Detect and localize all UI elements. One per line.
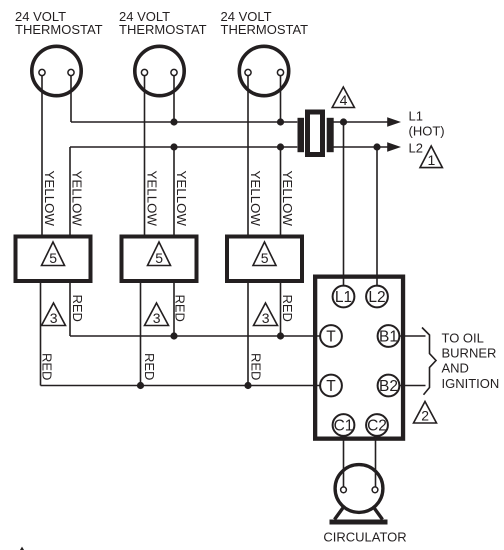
svg-text:3: 3	[153, 310, 161, 326]
triangle note 1	[420, 146, 442, 168]
svg-text:5: 5	[261, 250, 269, 266]
triangle note 3 below box 1	[42, 303, 66, 326]
arrow L1	[387, 117, 401, 127]
svg-text:RED: RED	[142, 353, 157, 380]
svg-text:1: 1	[428, 152, 436, 168]
svg-text:B1: B1	[379, 329, 398, 346]
svg-text:BURNER: BURNER	[442, 346, 497, 361]
svg-text:IGNITION: IGNITION	[442, 376, 500, 391]
terminal L1	[333, 286, 355, 308]
thermostat 2 terminals	[141, 69, 147, 75]
svg-text:L1: L1	[335, 289, 352, 306]
terminal C1	[333, 414, 355, 436]
junction dot line1 / L1 drop	[340, 118, 347, 125]
svg-text:THERMOSTAT: THERMOSTAT	[221, 22, 309, 37]
protectorelay box	[315, 277, 403, 439]
wire box1 bottom-left to line 4	[40, 283, 42, 386]
junction dot line4 / box3	[244, 382, 251, 389]
wire T2 right terminal down to line 1	[173, 73, 175, 123]
terminal C2	[366, 414, 388, 436]
terminal T upper	[320, 325, 342, 347]
triangle note 5 in box 2	[148, 242, 171, 266]
wire C2 to circulator	[375, 437, 377, 487]
svg-text:(HOT): (HOT)	[409, 124, 445, 139]
relay box 1	[16, 237, 91, 282]
wire box2 bottom-left to line 4	[140, 283, 142, 386]
arrow L2	[387, 142, 401, 152]
svg-text:TO OIL: TO OIL	[442, 331, 484, 346]
label L1 (HOT)	[409, 109, 445, 139]
wire T3 right terminal down to line 1	[280, 73, 282, 123]
svg-text:5: 5	[155, 250, 163, 266]
svg-text:2: 2	[421, 408, 429, 424]
svg-text:C1: C1	[334, 418, 354, 435]
svg-text:3: 3	[262, 310, 270, 326]
svg-text:T: T	[326, 329, 336, 346]
terminal T lower	[320, 375, 342, 397]
brace to oil burner	[422, 328, 436, 395]
wire T3 left terminal to relay box 3	[247, 73, 249, 235]
circulator terminal left	[341, 487, 347, 493]
triangle note 3 below box 2	[145, 303, 169, 326]
svg-text:THERMOSTAT: THERMOSTAT	[119, 22, 207, 37]
triangle note 3 below box 3	[254, 303, 278, 326]
svg-text:YELLOW: YELLOW	[280, 171, 295, 227]
junction dot line3 / box2	[170, 332, 177, 339]
wire line2 drop to box 3	[280, 147, 282, 235]
svg-text:THERMOSTAT: THERMOSTAT	[15, 22, 103, 37]
svg-text:AND: AND	[442, 361, 469, 376]
circulator terminal right	[372, 487, 378, 493]
svg-text:YELLOW: YELLOW	[248, 171, 263, 227]
junction dot line3 / box3	[277, 332, 284, 339]
svg-text:RED: RED	[70, 295, 85, 322]
wire T2 left terminal to relay box 2	[144, 73, 146, 235]
connector plug right bar	[327, 118, 334, 152]
svg-text:4: 4	[340, 92, 348, 108]
junction dot line1 / T2	[170, 118, 177, 125]
wire T1 left terminal to relay box 1	[41, 73, 43, 235]
svg-text:L1: L1	[409, 109, 423, 124]
wire box3 bottom-right to line 3	[280, 283, 282, 336]
wire stub B1	[400, 335, 426, 337]
label to oil burner and ignition	[442, 331, 500, 391]
relay box 3	[227, 237, 302, 282]
wire box1 bottom-right to line 3	[69, 283, 71, 336]
wire L1 drop to terminal L1	[343, 122, 345, 286]
svg-text:C2: C2	[367, 418, 387, 435]
wire C1 to circulator	[343, 437, 345, 487]
thermostat 2 circle	[135, 46, 184, 95]
svg-text:CIRCULATOR: CIRCULATOR	[323, 530, 406, 545]
junction dot line1 / T3	[277, 118, 284, 125]
triangle note 5 in box 1	[42, 242, 65, 266]
terminal L2	[366, 286, 388, 308]
triangle note 4	[332, 87, 354, 108]
terminal B2	[378, 375, 400, 397]
svg-text:RED: RED	[173, 295, 188, 322]
thermostat 1 terminals	[39, 69, 45, 75]
wire stub B2	[400, 385, 426, 387]
svg-text:YELLOW: YELLOW	[42, 171, 57, 227]
relay box 2	[122, 237, 197, 282]
svg-text:YELLOW: YELLOW	[69, 171, 84, 227]
footnote triangle (cut off at bottom edge)	[18, 548, 26, 550]
svg-text:L2: L2	[409, 141, 423, 156]
thermostat 3 terminals	[245, 69, 251, 75]
circulator body	[335, 465, 383, 513]
svg-text:YELLOW: YELLOW	[174, 171, 189, 227]
svg-text:L2: L2	[368, 289, 385, 306]
svg-text:B2: B2	[379, 378, 398, 395]
svg-text:YELLOW: YELLOW	[145, 171, 160, 227]
thermostat 2 label	[119, 9, 207, 37]
svg-text:5: 5	[49, 250, 57, 266]
wire line2 drop to box 2	[173, 147, 175, 235]
connector plug left bar	[298, 118, 305, 152]
wire line 4 to terminal T lower	[41, 385, 321, 387]
wire line2 drop to box 1	[69, 147, 71, 235]
junction dot line2 / box3 drop	[277, 143, 284, 150]
wire L2 drop to terminal L2	[376, 147, 378, 286]
triangle note 5 in box 3	[253, 242, 276, 266]
wire line 2 (L2 bus)	[70, 146, 388, 148]
junction dot line4 / box2	[137, 382, 144, 389]
wire line 1 (L1 hot bus)	[71, 121, 388, 123]
thermostat 3 label	[221, 9, 309, 37]
svg-text:3: 3	[50, 310, 58, 326]
junction dot line2 / box2 drop	[170, 143, 177, 150]
wire box3 bottom-left to line 4	[247, 283, 249, 386]
svg-text:T: T	[326, 378, 336, 395]
svg-text:RED: RED	[249, 353, 264, 380]
wire T1 right terminal down to line 1	[70, 73, 72, 123]
terminal B1	[378, 325, 400, 347]
svg-text:RED: RED	[40, 353, 55, 380]
thermostat 1 circle	[32, 46, 81, 95]
junction dot line2 / L2 drop	[373, 143, 380, 150]
thermostat 3 circle	[239, 46, 288, 95]
svg-text:RED: RED	[280, 295, 295, 322]
circulator stand	[330, 500, 388, 523]
connector plug body	[308, 112, 323, 155]
wire line 3 to terminal T upper	[70, 335, 321, 337]
wire box2 bottom-right to line 3	[173, 283, 175, 336]
thermostat 1 label	[15, 9, 103, 37]
triangle note 2	[414, 402, 437, 424]
